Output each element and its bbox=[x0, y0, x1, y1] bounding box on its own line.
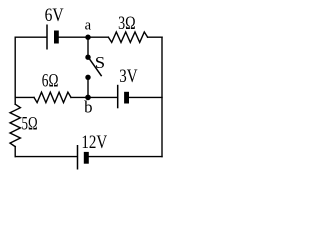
svg-text:3Ω: 3Ω bbox=[118, 13, 136, 34]
svg-text:6V: 6V bbox=[45, 5, 64, 26]
svg-text:a: a bbox=[85, 18, 92, 34]
svg-text:5Ω: 5Ω bbox=[22, 114, 38, 135]
svg-text:b: b bbox=[84, 98, 92, 117]
svg-text:6Ω: 6Ω bbox=[42, 71, 59, 92]
svg-text:3V: 3V bbox=[119, 66, 138, 87]
svg-text:S: S bbox=[95, 53, 105, 72]
svg-text:12V: 12V bbox=[81, 132, 107, 153]
